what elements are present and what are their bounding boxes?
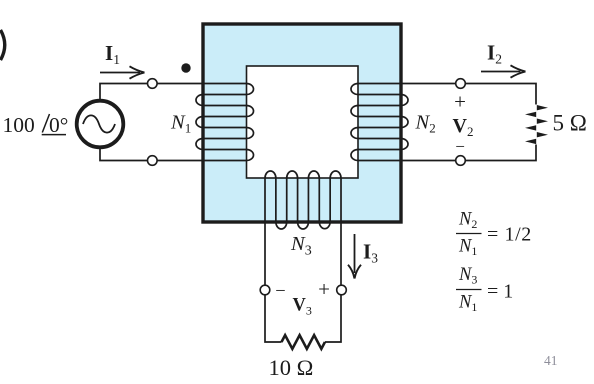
wire N3 left lead <box>264 222 266 290</box>
terminal V3 right <box>337 285 347 295</box>
wire top-right <box>401 84 536 105</box>
resistor R1 5ohm <box>537 105 548 110</box>
current arrow I2 <box>481 71 521 73</box>
svg-text:= 1/2: = 1/2 <box>487 224 532 246</box>
terminal right top <box>456 79 466 89</box>
winding N1 <box>196 84 253 161</box>
resistor R2 10ohm <box>282 335 325 349</box>
svg-text:N1: N1 <box>170 112 191 136</box>
core window <box>247 66 359 178</box>
winding N3 <box>265 171 341 229</box>
polarity dot <box>181 63 190 72</box>
svg-text:N3: N3 <box>458 265 477 287</box>
source VS 100/0 <box>77 101 124 148</box>
wire top-left <box>100 84 203 105</box>
svg-text:V3: V3 <box>293 296 312 318</box>
terminal left top <box>148 79 158 89</box>
wire V3 loop left <box>265 290 282 342</box>
svg-text:N2: N2 <box>415 112 436 136</box>
svg-text:I1: I1 <box>105 41 120 67</box>
wire bottom-right <box>401 145 536 161</box>
svg-text:100: 100 <box>3 113 35 137</box>
transformer core <box>203 24 401 222</box>
wire V3 loop right <box>325 290 341 342</box>
svg-text:0°: 0° <box>49 113 68 137</box>
svg-text:N3: N3 <box>290 233 312 259</box>
terminal V3 left <box>260 285 270 295</box>
svg-text:+: + <box>318 277 330 301</box>
svg-text:N1: N1 <box>458 237 477 259</box>
clipped parenthesis <box>1 30 5 60</box>
terminal left bottom <box>148 156 158 166</box>
svg-text:−: − <box>455 137 465 156</box>
svg-text:V2: V2 <box>453 115 474 139</box>
svg-text:−: − <box>275 282 285 302</box>
terminal right bottom <box>456 156 466 166</box>
svg-text:10 Ω: 10 Ω <box>269 355 314 380</box>
svg-text:41: 41 <box>544 353 558 368</box>
svg-text:5 Ω: 5 Ω <box>553 111 587 136</box>
svg-text:= 1: = 1 <box>487 281 513 303</box>
current arrow I3 <box>354 234 356 273</box>
wire bottom-left <box>100 144 203 161</box>
svg-text:N2: N2 <box>458 210 477 232</box>
svg-text:N1: N1 <box>458 293 477 315</box>
wire N3 right lead <box>340 222 342 290</box>
current arrow I1 <box>100 72 140 74</box>
svg-text:I3: I3 <box>363 240 378 266</box>
svg-text:I2: I2 <box>487 41 502 67</box>
winding N2 <box>351 84 408 161</box>
svg-text:+: + <box>454 90 466 114</box>
